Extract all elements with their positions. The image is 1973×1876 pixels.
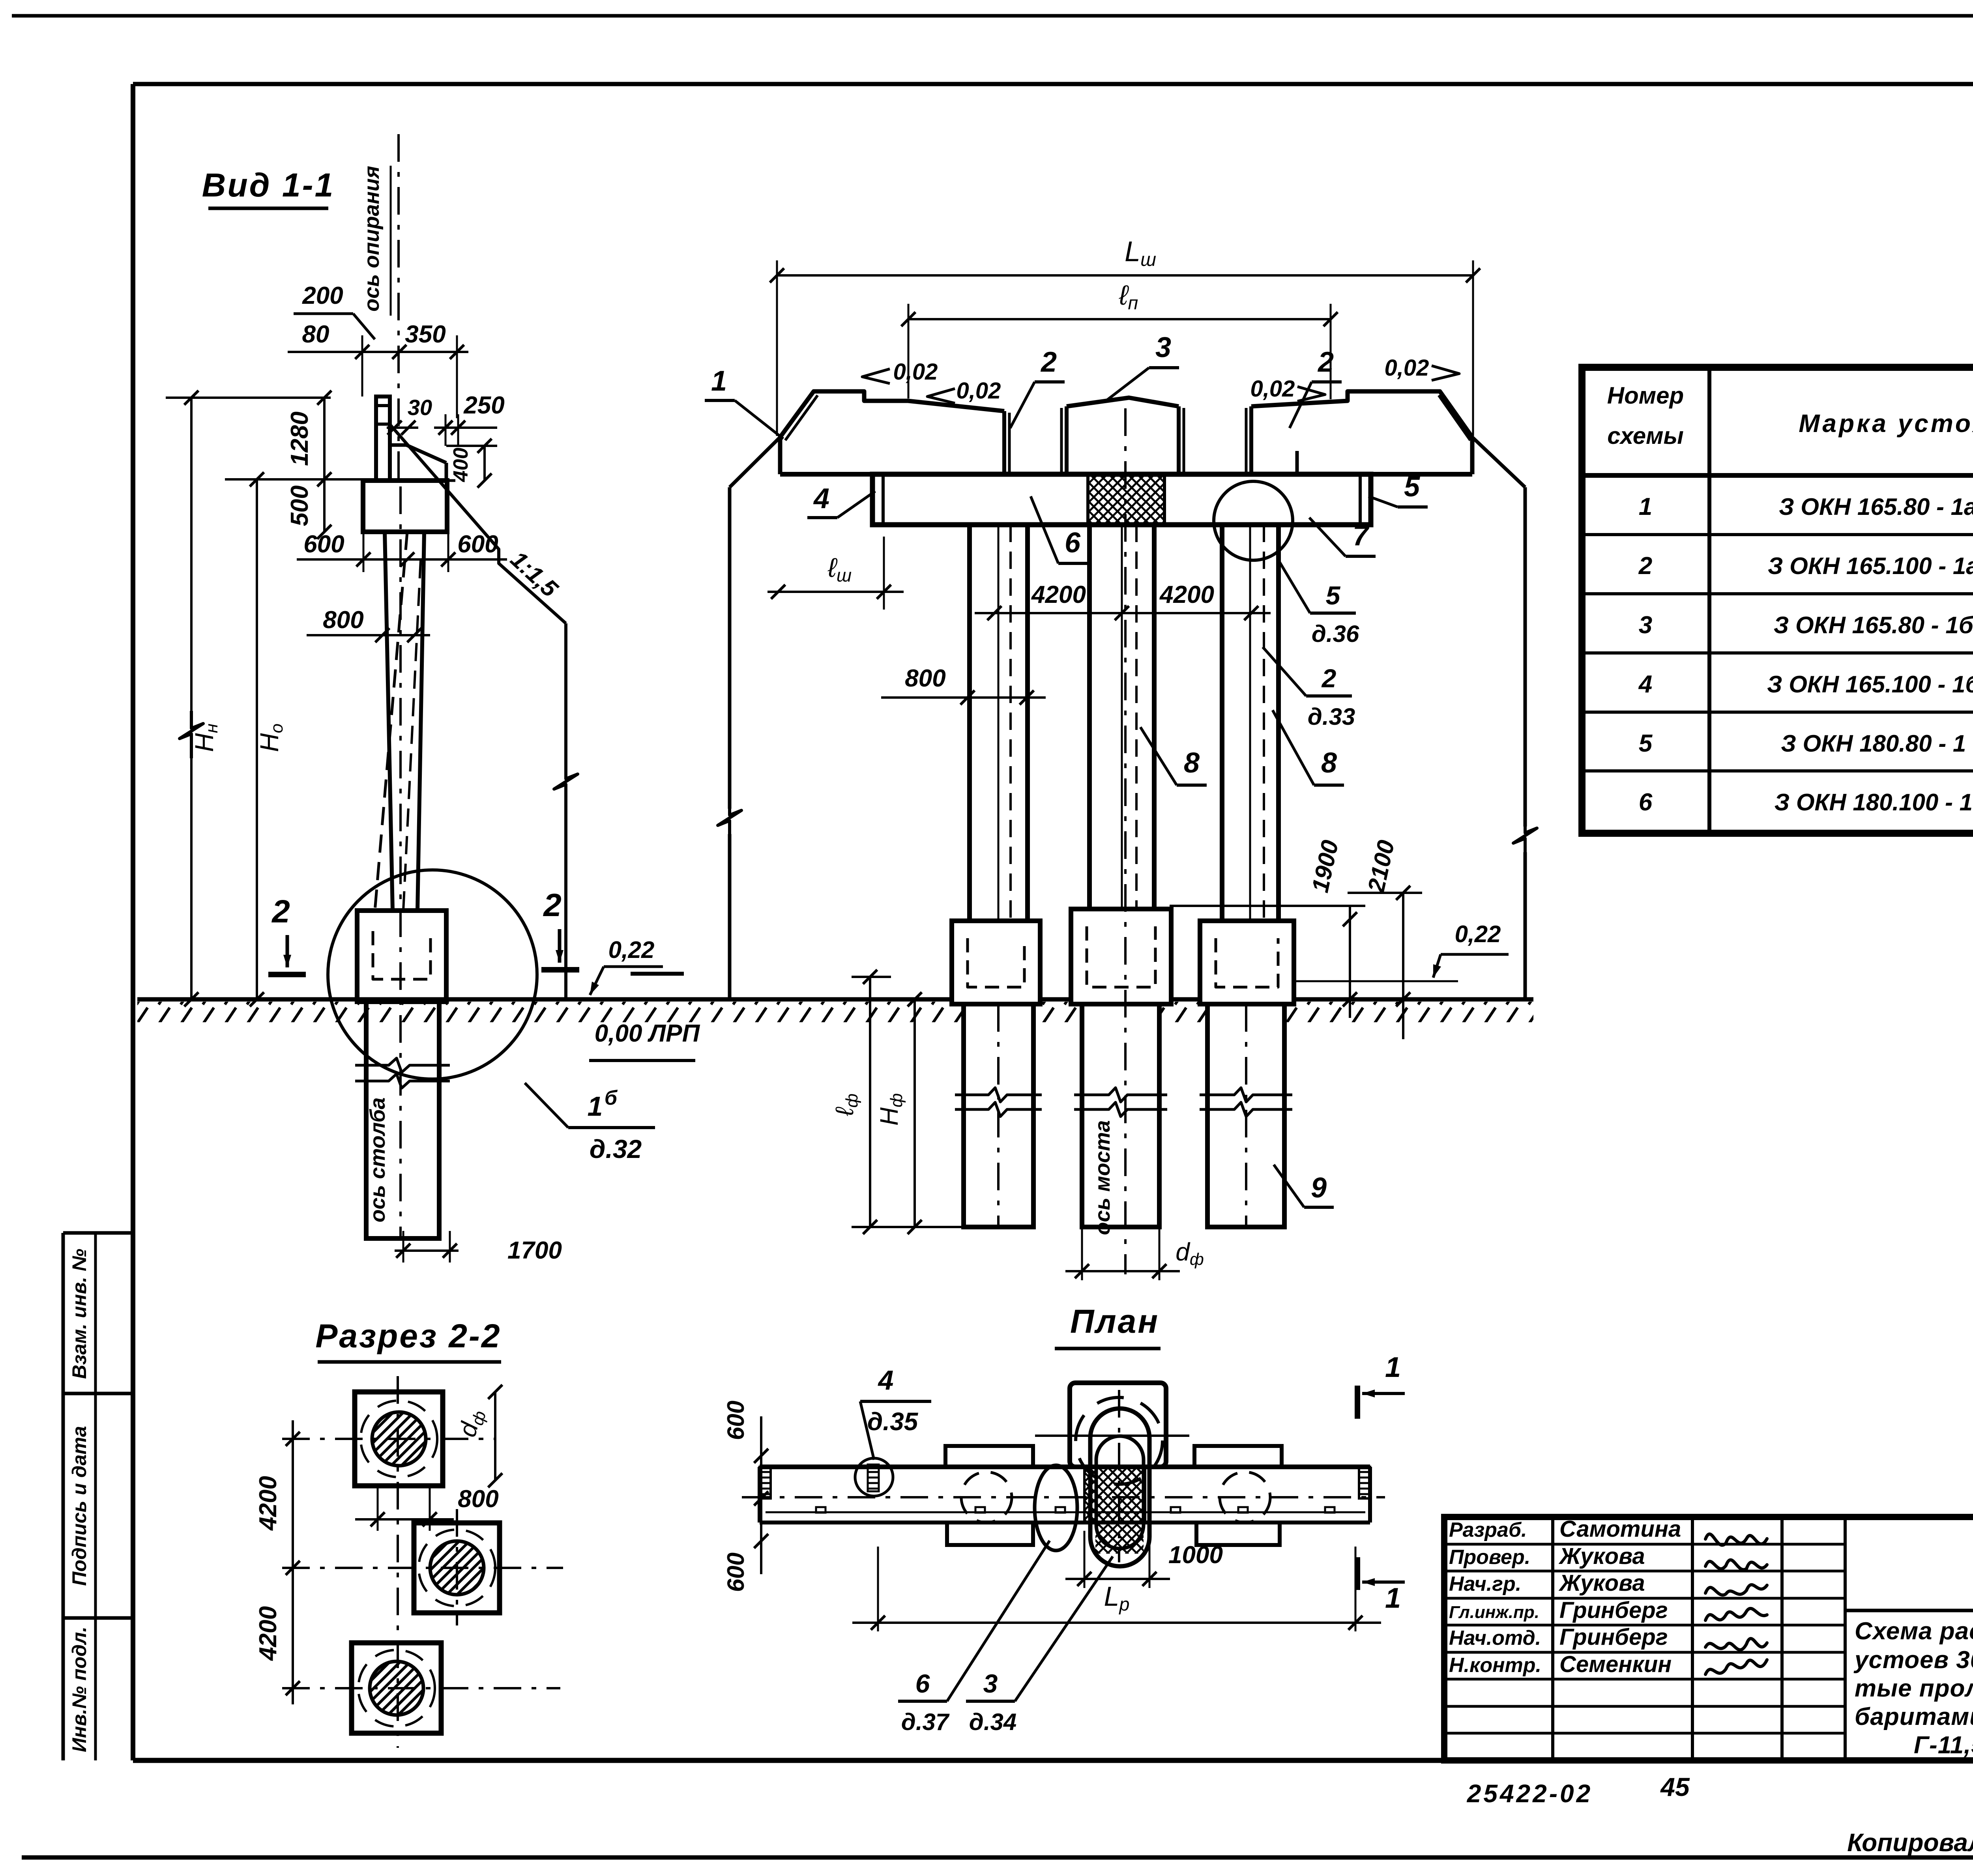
title block signature rows (1449, 1516, 1767, 1677)
svg-text:1700: 1700 (507, 1237, 562, 1264)
svg-text:План: План (1070, 1303, 1159, 1340)
plan center rect (1035, 1383, 1189, 1562)
svg-text:Гринберг: Гринберг (1559, 1624, 1668, 1650)
dim 80 350 (288, 321, 468, 418)
column left front (970, 525, 1028, 921)
svg-text:тые пролетные строения с га-: тые пролетные строения с га- (1855, 1675, 1973, 1702)
plan dashed circle center (1076, 1397, 1162, 1484)
svg-text:Г-11,5 + 2× 0,75; Г- 11,5+ 2×1: Г-11,5 + 2× 0,75; Г- 11,5+ 2×1,5 (1914, 1732, 1973, 1759)
plan block right lower (1196, 1522, 1280, 1545)
cap block side view (363, 481, 458, 532)
pile break symbol (355, 1058, 450, 1088)
svg-text:б: б (605, 1087, 618, 1109)
stamp label Podpis i data (68, 1426, 90, 1586)
svg-text:4: 4 (878, 1365, 894, 1395)
svg-text:80: 80 (302, 321, 329, 348)
dim 1280 (286, 391, 331, 486)
dim Lf (830, 970, 891, 1234)
svg-text:45: 45 (1660, 1772, 1690, 1801)
svg-text:0,02: 0,02 (893, 359, 938, 385)
svg-text:4200: 4200 (1031, 581, 1086, 608)
slope label 0.02 a (862, 359, 938, 385)
dim 250 (434, 392, 505, 446)
level mark 0.00 LRP (589, 1020, 700, 1061)
pile cage square 3 (352, 1643, 441, 1733)
svg-text:Номер: Номер (1607, 382, 1684, 409)
dim 800 left view (307, 606, 430, 642)
table grid (1582, 367, 1973, 833)
callout 3 (1105, 332, 1179, 402)
svg-text:800: 800 (323, 606, 363, 634)
svg-text:2: 2 (543, 887, 562, 923)
slope foot vertical (554, 623, 578, 999)
elastic pad hatched (1088, 474, 1164, 525)
svg-text:600: 600 (457, 531, 498, 558)
svg-text:3: 3 (1639, 612, 1652, 639)
plan stadium outer (1090, 1408, 1149, 1566)
dim 600 600 (297, 531, 507, 572)
dim Ho vertical (250, 472, 286, 1006)
svg-text:З ОКН 165.100 - 1а - ф: З ОКН 165.100 - 1а - ф (1768, 553, 1973, 579)
svg-text:Провер.: Провер. (1449, 1546, 1530, 1569)
slope line 1:1.5 (391, 425, 566, 623)
pile cage square 2 (414, 1523, 500, 1613)
svg-text:9: 9 (1311, 1172, 1327, 1204)
svg-text:8: 8 (1184, 747, 1200, 779)
svg-text:Копировал:: Копировал: (1847, 1828, 1973, 1857)
svg-text:З ОКН 180.100 - 1 - ф: З ОКН 180.100 - 1 - ф (1775, 789, 1973, 815)
svg-text:30: 30 (408, 395, 432, 420)
svg-text:ось опирания: ось опирания (360, 166, 384, 311)
svg-text:Марка устоя: Марка устоя (1799, 409, 1973, 438)
deformation slot 1 (1004, 406, 1067, 474)
svg-text:8: 8 (1321, 747, 1337, 779)
callout 4 (807, 483, 875, 518)
detail circle 1b d32 (328, 870, 537, 1079)
detail circle d36 (1214, 481, 1293, 560)
plan strip thin lines (766, 1511, 1365, 1513)
svg-text:2: 2 (1317, 346, 1334, 378)
column axis os stolba (366, 486, 401, 1238)
plan section mark 1 bottom (1357, 1557, 1405, 1614)
svg-text:3: 3 (983, 1669, 998, 1698)
svg-text:4: 4 (1638, 671, 1652, 698)
svg-text:ось столба: ось столба (366, 1098, 389, 1223)
extension line cap top (225, 478, 363, 481)
stamp label Vzam inv no (68, 1249, 90, 1379)
pile center front (1082, 1004, 1159, 1227)
cap beam front (872, 474, 1371, 525)
svg-text:0,02: 0,02 (1385, 355, 1429, 381)
left stamp boxes grid (63, 1233, 133, 1760)
svg-text:4200: 4200 (255, 1606, 282, 1661)
svg-text:250: 250 (463, 392, 504, 419)
svg-text:д.34: д.34 (969, 1709, 1017, 1735)
pile side view (366, 1002, 439, 1238)
svg-text:1: 1 (1639, 493, 1652, 520)
dim 500 (286, 479, 331, 539)
foundation block left front (952, 921, 1040, 1004)
callout 6 (1031, 496, 1088, 563)
svg-text:0,02: 0,02 (1250, 376, 1295, 402)
svg-text:схемы: схемы (1607, 423, 1683, 449)
svg-text:Подпись и дата: Подпись и дата (68, 1426, 90, 1586)
page top edge line (12, 14, 1973, 18)
foundation block center front (1071, 909, 1171, 1004)
svg-text:Жукова: Жукова (1558, 1543, 1645, 1569)
axis os mosta (1091, 408, 1125, 1274)
foundation block side view (357, 911, 446, 1002)
stamp label Inv no podl (68, 1627, 90, 1752)
dim 4200 4200 section (255, 1420, 300, 1704)
plan callout 3 d34 (966, 1556, 1113, 1735)
plan strip outline (760, 1467, 1370, 1522)
svg-text:6: 6 (915, 1669, 930, 1698)
plan section mark 1 top (1357, 1352, 1405, 1419)
footer 25422-02 (1467, 1779, 1593, 1808)
plan dim 600 600 (723, 1401, 768, 1592)
svg-text:1: 1 (588, 1091, 603, 1122)
svg-text:Взам. инв. №: Взам. инв. № (68, 1249, 90, 1379)
callout 8 right (1273, 710, 1344, 785)
dim 400 (446, 439, 497, 488)
dim 4200 4200 (975, 581, 1271, 620)
title block grid (1444, 1517, 1973, 1760)
plan block left upper (945, 1446, 1033, 1467)
svg-text:3: 3 (1155, 332, 1171, 363)
svg-text:1280: 1280 (286, 411, 313, 466)
pile right front (1207, 1004, 1284, 1227)
svg-text:Жукова: Жукова (1558, 1570, 1645, 1596)
callout 9 (1274, 1165, 1334, 1207)
section title Razrez 2-2 (315, 1317, 501, 1362)
svg-text:350: 350 (405, 321, 446, 348)
dim Lsh top (770, 236, 1480, 436)
svg-text:2: 2 (1040, 346, 1057, 378)
table row 3 (1639, 612, 1973, 639)
svg-text:Разрез 2-2: Разрез 2-2 (315, 1317, 501, 1354)
plan callout 6 d37 (898, 1541, 1050, 1735)
main frame bottom (133, 1758, 1973, 1763)
pile break center (1074, 1088, 1167, 1117)
svg-text:600: 600 (723, 1401, 749, 1440)
plan dashed circle left (961, 1472, 1012, 1522)
dim 30 (387, 395, 432, 435)
svg-text:З ОКН 165.80 - 1а- Ф: З ОКН 165.80 - 1а- Ф (1779, 494, 1973, 520)
section mark 2 right (541, 887, 579, 970)
pile break right (1200, 1088, 1292, 1117)
plan stadium inner (1096, 1436, 1144, 1549)
callout 5 right (1368, 471, 1428, 507)
svg-text:З ОКН 165.100 - 1б - ф: З ОКН 165.100 - 1б - ф (1767, 671, 1973, 698)
plan end bar right (1359, 1467, 1370, 1498)
plan hatched square (1084, 1467, 1145, 1554)
svg-text:ось моста: ось моста (1091, 1120, 1114, 1235)
pile cage square 1 (355, 1392, 443, 1486)
svg-text:200: 200 (302, 282, 343, 309)
svg-text:Семенкин: Семенкин (1559, 1652, 1672, 1677)
svg-text:Самотина: Самотина (1559, 1516, 1681, 1542)
back wall side view (376, 397, 390, 481)
svg-text:устоев 30 КН Lш. Hн под ребри: устоев 30 КН Lш. Hн под ребрис- (1853, 1646, 1973, 1674)
svg-text:Вид 1-1: Вид 1-1 (202, 166, 335, 204)
footer kopiroval (1847, 1828, 1973, 1857)
wall bottom line (780, 472, 1472, 477)
page bottom edge line (22, 1855, 1973, 1860)
svg-text:д.33: д.33 (1308, 703, 1355, 730)
callout 1 (705, 365, 783, 439)
svg-text:800: 800 (905, 665, 945, 692)
dim df section (454, 1385, 502, 1487)
bearing ledge (390, 445, 446, 481)
section centerline vertical (398, 1376, 457, 1748)
table row 1 (1639, 493, 1973, 520)
table row 6 (1639, 789, 1973, 816)
svg-text:Гринберг: Гринберг (1559, 1597, 1668, 1623)
back wall front outline (780, 391, 1472, 440)
svg-text:600: 600 (303, 531, 344, 558)
callout 2 slot1 (1010, 346, 1065, 428)
ground line (137, 997, 1533, 1002)
pile circle 2 (419, 1530, 495, 1606)
plan block left lower (947, 1522, 1033, 1545)
svg-text:4200: 4200 (1159, 581, 1214, 608)
svg-text:Нач.гр.: Нач.гр. (1449, 1573, 1521, 1595)
detail label 1b d32 (525, 1083, 655, 1163)
svg-text:З ОКН 165.80 - 1б - ф: З ОКН 165.80 - 1б - ф (1774, 612, 1973, 638)
dim 800 section (355, 1485, 499, 1531)
svg-text:д.37: д.37 (901, 1709, 950, 1735)
svg-text:Гл.инж.пр.: Гл.инж.пр. (1449, 1603, 1539, 1622)
svg-text:7: 7 (1353, 520, 1370, 552)
column center front (1089, 525, 1154, 909)
plan ellipse left (1035, 1465, 1077, 1551)
svg-text:1000: 1000 (1168, 1541, 1223, 1569)
svg-text:400: 400 (449, 448, 472, 483)
dim lsh console (767, 537, 904, 610)
table row 4 (1638, 671, 1973, 698)
section centerlines horizontal (282, 1439, 563, 1688)
section mark 2 left (268, 894, 306, 974)
view title Vid 1-1 (202, 166, 335, 208)
svg-text:д.36: д.36 (1312, 621, 1359, 647)
main frame left (131, 84, 135, 1760)
callout 8 center (1140, 727, 1207, 785)
callout 7 (1309, 518, 1376, 556)
pile circle 1 (361, 1401, 437, 1477)
slope label 0.02 c (1250, 376, 1325, 402)
svg-text:6: 6 (1065, 527, 1081, 559)
plan dashed circle right (1220, 1472, 1270, 1522)
slope label 0.02 d (1385, 355, 1459, 381)
dim 800 elevation (881, 665, 1046, 705)
table row 5 (1639, 730, 1973, 757)
dim Hn vertical (180, 391, 221, 1006)
svg-text:4: 4 (813, 483, 829, 514)
dim Lf Hf bottom ext (852, 1226, 971, 1228)
svg-text:600: 600 (723, 1552, 749, 1592)
axis os opiraniya (360, 134, 399, 486)
svg-text:500: 500 (286, 485, 313, 526)
pile break left (955, 1088, 1042, 1117)
svg-text:2: 2 (1321, 664, 1337, 693)
dim 200 label (294, 282, 375, 339)
svg-text:6: 6 (1639, 789, 1653, 816)
svg-text:0,22: 0,22 (1455, 921, 1501, 947)
title block description (1853, 1618, 1973, 1759)
svg-text:5: 5 (1639, 730, 1653, 757)
foundation socket dashed (373, 931, 431, 979)
ground hatch (137, 1002, 1533, 1022)
top band bottom line / frame top (133, 82, 1973, 86)
pile left front (964, 1004, 1033, 1227)
tick above cap (1295, 451, 1299, 474)
svg-text:2: 2 (1638, 552, 1652, 580)
dim 2100 (1348, 838, 1422, 1039)
svg-text:800: 800 (458, 1485, 498, 1513)
plan block right upper (1194, 1446, 1282, 1467)
svg-text:0,22: 0,22 (608, 937, 655, 963)
svg-text:1: 1 (1385, 1352, 1401, 1383)
foundation block right front (1200, 921, 1294, 1004)
svg-text:д.32: д.32 (590, 1134, 642, 1163)
level mark 0.22 left (590, 937, 684, 995)
elevation outer left (718, 437, 780, 999)
svg-text:5: 5 (1326, 581, 1341, 610)
svg-text:Нач.отд.: Нач.отд. (1449, 1627, 1541, 1650)
dim Hf (875, 992, 922, 1234)
deformation slot 2 (1179, 406, 1251, 474)
svg-text:25422-02: 25422-02 (1467, 1779, 1593, 1808)
plan detail circle d35 (855, 1458, 893, 1496)
plan tabs (816, 1507, 1335, 1513)
svg-text:д.35: д.35 (867, 1407, 919, 1436)
plan callout 4 d35 (860, 1365, 931, 1460)
plan dim 1000 (1065, 1531, 1223, 1588)
dim 1900 (1170, 838, 1365, 1018)
svg-text:5: 5 (1404, 471, 1420, 503)
column right front (1222, 525, 1279, 921)
footer 45 (1660, 1772, 1690, 1801)
svg-text:4200: 4200 (255, 1476, 282, 1531)
callout 2 slot2 (1290, 346, 1342, 428)
plan end bar left (760, 1467, 771, 1498)
svg-text:Инв.№ подл.: Инв.№ подл. (68, 1627, 90, 1752)
table header nomer shemy (1607, 382, 1684, 449)
slope label 0.02 b (927, 378, 1001, 404)
plan dim Lr (852, 1547, 1381, 1631)
elevation outer right (1472, 437, 1537, 999)
dim df elevation (1065, 1227, 1204, 1280)
callout 5 d36 (1279, 560, 1359, 647)
svg-text:баритами Г-10+ 2× 1,5 ;: баритами Г-10+ 2× 1,5 ; (1855, 1703, 1973, 1730)
svg-text:З ОКН 180.80 - 1 - ф: З ОКН 180.80 - 1 - ф (1781, 730, 1973, 757)
table header marka ustoya (1799, 409, 1973, 438)
dim lp (901, 280, 1338, 399)
svg-text:1: 1 (711, 365, 727, 397)
dim 1700 (395, 1231, 562, 1264)
level mark 0.22 elevation (1296, 921, 1509, 981)
extension line wall top (166, 397, 331, 399)
callout 2 d33 (1263, 647, 1355, 730)
table row 2 (1638, 552, 1973, 580)
svg-text:0,02: 0,02 (957, 378, 1001, 404)
plan strip axis (742, 1496, 1385, 1498)
svg-text:0,00 ЛРП: 0,00 ЛРП (595, 1020, 700, 1047)
column side view lines (375, 532, 424, 911)
svg-text:1: 1 (1385, 1582, 1401, 1614)
svg-text:Разраб.: Разраб. (1449, 1519, 1527, 1541)
wall side edges (780, 437, 1472, 474)
pile circle 3 (358, 1650, 435, 1726)
svg-text:Н.контр.: Н.контр. (1449, 1654, 1541, 1677)
plan title (1055, 1303, 1161, 1349)
svg-text:Схема расположения элементов: Схема расположения элементов (1855, 1618, 1973, 1645)
svg-text:2: 2 (271, 894, 290, 930)
